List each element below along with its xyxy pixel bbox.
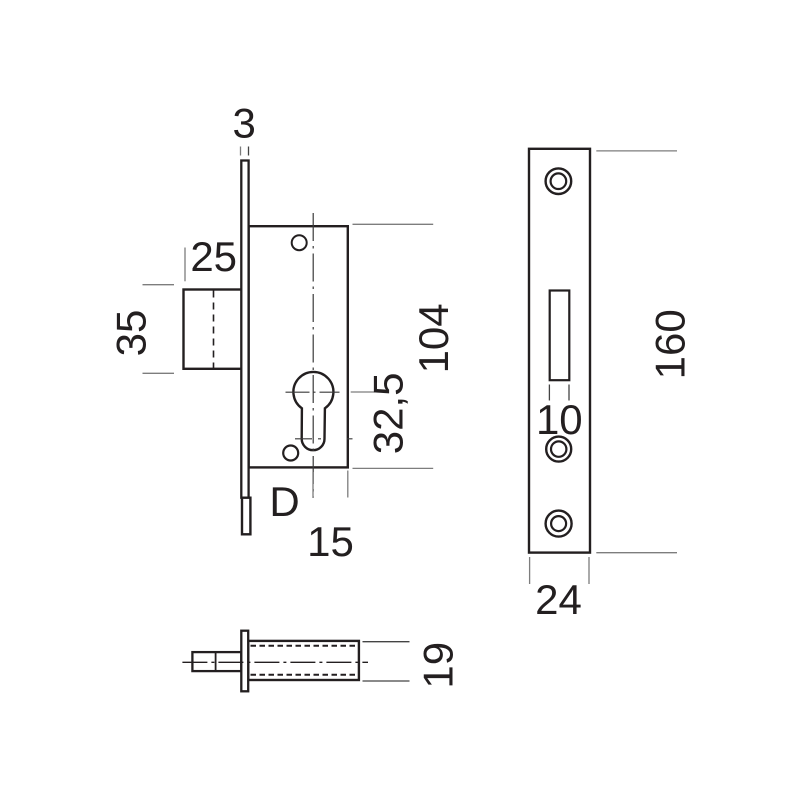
latch slot: [550, 291, 570, 381]
slot ticks: [548, 385, 550, 401]
svg-text:19: 19: [414, 642, 461, 689]
dimension 15 ticks: [312, 472, 314, 498]
side bolt: [192, 652, 241, 671]
dimension 104 extension lines: [353, 223, 434, 225]
svg-text:160: 160: [647, 309, 694, 379]
faceplate side strip: [241, 161, 248, 498]
svg-text:3: 3: [233, 100, 256, 147]
svg-text:24: 24: [535, 576, 582, 623]
side case dashed bottom: [251, 674, 358, 676]
svg-text:104: 104: [410, 303, 457, 373]
stem arc horizontal centerline: [295, 438, 353, 440]
screw hole top inner: [551, 173, 567, 189]
bolt (latch block): [184, 290, 243, 369]
dimension 24 ticks: [529, 557, 531, 584]
dimension 3 ticks: [240, 147, 242, 156]
lock case: [249, 226, 348, 467]
screw hole middle outer: [546, 437, 571, 462]
svg-text:35: 35: [107, 310, 154, 357]
dimension 32,5 tick: [351, 391, 375, 393]
faceplate front plate: [529, 149, 590, 553]
case screw hole top: [292, 235, 307, 250]
dimension 19 extension lines: [363, 641, 410, 643]
side bolt divider: [215, 652, 217, 671]
euro cylinder profile: [293, 372, 333, 450]
screw hole middle inner: [551, 441, 566, 456]
screw hole bottom outer: [546, 511, 572, 537]
dimension 35 extension lines: [143, 284, 175, 286]
side centerline: [182, 661, 368, 663]
svg-text:D: D: [269, 478, 299, 525]
dimension 160 extension lines: [596, 150, 677, 152]
bolt dashed line: [213, 291, 215, 369]
screw hole bottom inner: [551, 516, 566, 531]
screw hole top outer: [546, 168, 572, 194]
dimension 25 tick: [184, 248, 186, 282]
side case: [248, 641, 359, 680]
faceplate bottom tip: [242, 498, 250, 535]
svg-text:32,5: 32,5: [365, 373, 412, 455]
svg-text:15: 15: [307, 518, 354, 565]
cylinder horizontal centerline: [286, 391, 340, 393]
side faceplate bar: [241, 631, 248, 692]
case screw hole bottom: [283, 446, 298, 461]
svg-text:25: 25: [190, 233, 237, 280]
side case dashed top: [251, 645, 358, 647]
vertical centerline: [312, 213, 314, 498]
